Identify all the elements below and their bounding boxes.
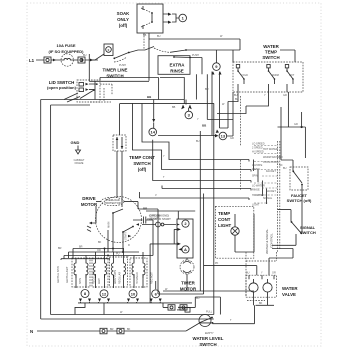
- wire into terminal: [92, 54, 104, 60]
- svg-text:WARM: WARM: [271, 74, 279, 77]
- timer motor dashed circle: [180, 260, 194, 274]
- svg-text:BU: BU: [246, 272, 250, 275]
- wire S4b: [162, 186, 251, 191]
- dashed drop from water temp: [240, 96, 242, 190]
- wire valve feed long: [204, 266, 257, 276]
- wire bend to x233: [207, 74, 233, 136]
- water valve terminals: [249, 275, 274, 282]
- svg-text:BU: BU: [234, 94, 238, 97]
- wire outer frame top: [41, 99, 184, 101]
- svg-text:CONTROL: CONTROL: [270, 233, 274, 248]
- svg-text:BR: BR: [58, 247, 62, 250]
- motor internal wiring: [108, 202, 159, 242]
- svg-text:10: 10: [131, 291, 136, 296]
- svg-text:CONT: CONT: [218, 217, 231, 222]
- blade dashed arc: [114, 57, 127, 62]
- svg-text:BK: BK: [98, 241, 102, 244]
- wire right side feed: [281, 107, 293, 171]
- svg-text:LIGHT: LIGHT: [218, 223, 231, 228]
- scattered wire color labels: [58, 34, 298, 322]
- svg-text:GND: GND: [71, 140, 80, 145]
- svg-text:WATER: WATER: [263, 44, 279, 49]
- svg-text:(open position): (open position): [47, 85, 77, 90]
- node 6: [152, 290, 160, 298]
- svg-text:A: A: [184, 247, 187, 252]
- lid switch blade: [80, 90, 94, 99]
- signal switch feed: [278, 210, 292, 222]
- svg-text:BB: BB: [172, 106, 176, 109]
- wire inner frame top: [51, 104, 90, 106]
- svg-text:N: N: [30, 329, 33, 334]
- wire S5: [140, 192, 250, 200]
- soak only switch blades (dashed): [141, 8, 152, 27]
- svg-text:GR: GR: [283, 94, 287, 97]
- svg-text:GENTLE AGIT: GENTLE AGIT: [66, 266, 69, 283]
- svg-text:START: START: [125, 232, 128, 240]
- capacitor C1: [133, 215, 160, 224]
- node A: [182, 246, 189, 253]
- gnd at motor: [87, 202, 101, 232]
- svg-text:SWITCH: SWITCH: [300, 230, 316, 235]
- svg-text:MAIN: MAIN: [108, 222, 111, 228]
- signal switch: [291, 221, 303, 234]
- wire right dashes near valve: [247, 300, 265, 302]
- svg-text:R: R: [128, 244, 130, 247]
- svg-text:2 SPEED: 2 SPEED: [252, 146, 263, 149]
- water temp contact 1: [236, 65, 245, 93]
- svg-text:FRAME: FRAME: [75, 162, 84, 165]
- extra rinse switch blade: [154, 48, 170, 52]
- svg-text:HOT WATER: HOT WATER: [263, 148, 278, 151]
- timer bottom dashed box: [246, 252, 276, 297]
- water level switch: [199, 315, 213, 327]
- svg-text:TEMP CONT: TEMP CONT: [129, 155, 155, 160]
- drive motor circle (dashed): [96, 197, 142, 243]
- wire temp cont drops: [119, 103, 121, 135]
- svg-text:MOTOR: MOTOR: [81, 202, 98, 207]
- wire to water temp switch: [225, 50, 240, 62]
- wire motor bottom drops: [108, 230, 123, 252]
- wire node 9 top: [215, 50, 217, 63]
- junction dots on feeders: [112, 248, 114, 250]
- node 13: [219, 132, 227, 140]
- extra rinse blade 2: [174, 56, 202, 59]
- wire timer leader dashes: [254, 146, 277, 204]
- junction dot: [301, 126, 303, 128]
- arrows at node 8: [79, 299, 91, 302]
- wire y127 row: [278, 112, 306, 158]
- svg-text:RINSE: RINSE: [252, 188, 260, 191]
- svg-text:COLD: COLD: [241, 74, 248, 77]
- wire N to water level: [186, 323, 199, 331]
- svg-text:BK: BK: [127, 328, 131, 331]
- wire right step verticals: [254, 160, 267, 205]
- svg-text:WASH SPIN: WASH SPIN: [114, 270, 117, 284]
- water temp contact 2: [267, 65, 276, 93]
- wire block tails: [150, 229, 177, 303]
- water valve solenoid 1: [249, 283, 258, 292]
- arrows at node 6: [150, 299, 162, 302]
- wire signal bottom leads: [269, 234, 296, 258]
- svg-text:HI SPEED: HI SPEED: [136, 272, 139, 284]
- coil group 3: [110, 257, 128, 287]
- wire frame bottoms: [41, 315, 214, 320]
- wire left connector stub: [177, 307, 190, 313]
- wire faucet drop: [301, 189, 303, 234]
- timer terminal labels: [252, 143, 280, 207]
- node 3: [185, 111, 193, 119]
- svg-text:REG AGIT: REG AGIT: [151, 272, 154, 284]
- svg-text:(off): (off): [138, 167, 147, 172]
- wire verticals below extra rinse: [196, 58, 228, 136]
- coil group 2: [92, 258, 108, 287]
- svg-text:LO SPEED: LO SPEED: [252, 143, 265, 146]
- svg-text:REGULAR: REGULAR: [93, 272, 96, 284]
- svg-text:SWITCH: SWITCH: [133, 161, 150, 166]
- svg-text:LIGHT: LIGHT: [252, 204, 260, 207]
- fuse F1 10A: [61, 54, 73, 66]
- connector J5: [168, 305, 175, 310]
- svg-text:TEMP: TEMP: [218, 211, 230, 216]
- svg-text:LO WATER: LO WATER: [252, 185, 265, 188]
- svg-text:GR: GR: [272, 272, 276, 275]
- svg-text:GR: GR: [294, 123, 298, 126]
- arrows at node 10: [127, 299, 139, 302]
- coil group 4: [130, 258, 147, 287]
- wire main bus y81: [89, 80, 149, 82]
- wire coil bottoms to nodes: [76, 274, 143, 288]
- svg-text:SWITCH (off): SWITCH (off): [287, 198, 312, 203]
- svg-text:BU: BU: [196, 140, 200, 143]
- wire dashed along inner top: [90, 101, 111, 103]
- overload protector: [101, 197, 124, 205]
- lid switch contacts: [79, 83, 98, 92]
- wire motor outputs: [153, 209, 158, 294]
- svg-text:10A FUSE: 10A FUSE: [57, 43, 76, 48]
- wire S4: [153, 140, 251, 183]
- svg-text:SIGNAL: SIGNAL: [263, 197, 273, 200]
- wire soak box verticals: [143, 33, 145, 49]
- wire inner frame top right: [120, 102, 214, 104]
- wire top feeder y39: [149, 39, 240, 50]
- svg-text:FAUCET: FAUCET: [266, 170, 276, 173]
- svg-text:12: 12: [102, 291, 107, 296]
- wire center verticals: [200, 136, 203, 295]
- coil group 1 gentle: [72, 258, 90, 287]
- temp cont light bulb: [231, 227, 239, 235]
- svg-text:SPIN: SPIN: [79, 278, 82, 284]
- wire stubs dropping left: [88, 54, 90, 81]
- switch block with 2 and A: [177, 219, 193, 258]
- svg-text:BR: BR: [79, 246, 83, 249]
- wire S7 BB row: [146, 211, 195, 219]
- timer line switch terminal 0: [104, 44, 113, 56]
- wire S1 tick: [199, 131, 201, 136]
- connector J4: [117, 328, 124, 334]
- svg-text:RINSE: RINSE: [170, 69, 183, 74]
- svg-text:EXTRA: EXTRA: [170, 63, 186, 68]
- wire valve return: [254, 305, 256, 323]
- node 8: [81, 290, 89, 298]
- svg-text:PUSH: PUSH: [192, 54, 199, 57]
- svg-text:GR: GR: [230, 137, 234, 140]
- arrows into block: [178, 228, 182, 251]
- wire soak outputs: [163, 14, 168, 22]
- wire lid dashed tail right: [100, 84, 112, 102]
- water temp switch box (dashed): [233, 62, 303, 92]
- svg-text:TIMER: TIMER: [181, 281, 195, 286]
- wire node14 drop: [153, 100, 155, 120]
- svg-text:BU: BU: [205, 88, 209, 91]
- wire timer motor leads: [186, 258, 188, 291]
- faucet switch box (dashed): [290, 167, 308, 190]
- connector J1: [44, 57, 51, 63]
- svg-text:GD: GD: [178, 307, 182, 310]
- svg-text:(IF SO EQUIPPED): (IF SO EQUIPPED): [49, 49, 85, 54]
- arrows to node 3: [181, 105, 192, 110]
- wire mid connectors row: [163, 297, 195, 307]
- node 12: [100, 290, 108, 298]
- node 10: [129, 290, 137, 298]
- svg-text:AGITATE: AGITATE: [252, 164, 263, 167]
- svg-text:AGIT: AGIT: [98, 278, 101, 284]
- svg-text:SWITCH: SWITCH: [199, 342, 216, 347]
- svg-text:VALVE: VALVE: [282, 292, 296, 297]
- inner frame right vertical: [213, 103, 215, 314]
- node 2: [182, 220, 189, 227]
- svg-text:WATER & SIGNAL: WATER & SIGNAL: [265, 228, 269, 254]
- arrows to node 1: [168, 13, 172, 24]
- svg-text:HOT: HOT: [289, 74, 295, 77]
- svg-text:TEMP: TEMP: [265, 50, 277, 55]
- wire lid diagonals from frame corner: [64, 93, 80, 102]
- wire to node 13: [158, 135, 215, 137]
- temp cont light box (dashed): [215, 206, 253, 258]
- timer line switch blade: [114, 47, 154, 59]
- svg-text:OR: OR: [97, 249, 101, 252]
- svg-text:PU: PU: [116, 253, 120, 256]
- svg-text:TIMER LINE: TIMER LINE: [103, 68, 128, 73]
- svg-text:BU: BU: [283, 167, 287, 170]
- temp cont dashed component: [113, 135, 126, 151]
- wire lid tail to y77: [99, 78, 101, 81]
- svg-text:BR: BR: [110, 328, 114, 331]
- svg-text:(off): (off): [119, 23, 128, 28]
- gnd cabinet frame: [71, 140, 85, 165]
- svg-text:BU: BU: [157, 35, 161, 38]
- svg-text:BU: BU: [196, 297, 200, 300]
- svg-text:SPIN: SPIN: [252, 175, 258, 178]
- svg-text:PK: PK: [215, 262, 219, 265]
- wire L1 feed: [36, 59, 98, 61]
- wire bulb leads: [235, 214, 254, 252]
- svg-text:SWITCH: SWITCH: [262, 55, 279, 60]
- wire valve bottom: [254, 292, 275, 305]
- water valve box (dashed): [246, 275, 276, 297]
- svg-text:SOAK: SOAK: [117, 11, 131, 16]
- water temp contact 3: [285, 65, 294, 93]
- node 1: [179, 14, 187, 22]
- wire coil top feeders: [61, 249, 153, 259]
- svg-text:DRIVE: DRIVE: [82, 196, 95, 201]
- svg-text:GENTLE SPIN: GENTLE SPIN: [57, 266, 60, 283]
- svg-text:ONLY: ONLY: [117, 17, 129, 22]
- water valve solenoid 2: [263, 283, 272, 292]
- wire lid to node3 upper: [100, 78, 159, 100]
- left frame verticals: [41, 100, 51, 320]
- svg-text:14: 14: [150, 130, 155, 135]
- wire S3: [133, 103, 252, 171]
- wire center horizontals bottom: [158, 291, 254, 294]
- extra rinse box: [158, 56, 190, 75]
- svg-text:WATER: WATER: [282, 286, 298, 291]
- connector J2: [78, 57, 85, 63]
- wire staircase from water temp: [217, 92, 288, 128]
- arrow marks on L1 wire: [53, 59, 83, 62]
- node 14: [149, 128, 157, 136]
- svg-text:WARM WATER: WARM WATER: [263, 156, 280, 159]
- svg-text:L1: L1: [29, 58, 35, 63]
- console bulb: [156, 222, 164, 227]
- soak only switch box: [137, 4, 163, 33]
- wire water level connections: [213, 323, 255, 325]
- arrows at node 12: [98, 299, 110, 302]
- svg-text:PROTECTOR: PROTECTOR: [104, 201, 120, 205]
- svg-text:EMPTY: EMPTY: [205, 332, 214, 335]
- faucet switch blade: [293, 171, 302, 189]
- wire start row: [142, 224, 176, 226]
- node 9: [213, 63, 221, 71]
- wire S2: [142, 103, 249, 161]
- connector J3: [100, 328, 107, 334]
- timer column dashed verticals: [278, 141, 280, 252]
- svg-text:13: 13: [221, 134, 226, 139]
- svg-text:REGULAR: REGULAR: [119, 272, 122, 284]
- connector J6: [180, 305, 187, 310]
- svg-text:BU: BU: [235, 98, 239, 101]
- wire N line: [37, 330, 186, 332]
- lid switch box (dashed): [77, 80, 100, 102]
- svg-text:BU: BU: [83, 54, 87, 57]
- svg-text:FULL: FULL: [206, 311, 213, 314]
- wire node bus: [81, 302, 161, 303]
- svg-text:PRESS TO START: PRESS TO START: [147, 217, 171, 221]
- svg-text:WATER LEVEL: WATER LEVEL: [193, 336, 224, 341]
- svg-text:BB: BB: [143, 34, 147, 37]
- svg-text:BK: BK: [259, 302, 263, 305]
- arrows below node 9: [212, 71, 222, 74]
- svg-text:FAUCET: FAUCET: [266, 190, 276, 193]
